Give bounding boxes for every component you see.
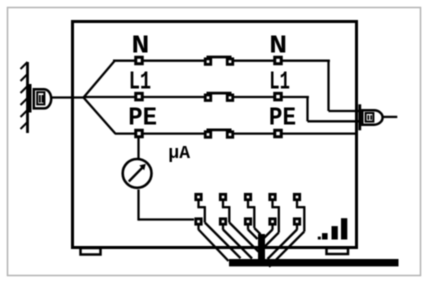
ammeter M1 — [123, 159, 152, 188]
plug P1 (mains plug, left) — [29, 84, 52, 113]
foot left — [81, 248, 101, 255]
wire L1 row left — [84, 96, 208, 98]
probe column 1 — [196, 194, 241, 261]
wire N row right — [231, 60, 330, 62]
wire plug to node — [51, 96, 85, 98]
probe column 2 — [220, 194, 258, 258]
merge stub — [258, 234, 265, 264]
terminal N left — [136, 57, 143, 64]
svg-text:L1: L1 — [269, 68, 290, 97]
device box — [73, 22, 357, 248]
wire meter down — [137, 190, 139, 221]
wire PE row left — [115, 132, 208, 134]
jumper link N — [205, 57, 233, 64]
wire N down at right — [327, 61, 329, 111]
jumper link PE — [205, 130, 233, 137]
terminal L1 left — [136, 93, 143, 100]
wire L1 to socket — [308, 120, 360, 122]
wire diagonal to PE — [84, 98, 116, 134]
probe column 5 — [268, 194, 305, 266]
foot right — [327, 248, 349, 254]
wire PE to meter — [137, 137, 139, 158]
wall hatch — [21, 62, 28, 129]
socket plug right — [358, 104, 397, 130]
wire PE row right — [231, 132, 358, 134]
probe bundle — [196, 194, 304, 266]
svg-text:PE: PE — [269, 104, 296, 133]
svg-text:N: N — [269, 32, 287, 61]
conductive plate bar — [229, 259, 399, 266]
svg-text:PE: PE — [128, 104, 157, 133]
svg-text:µA: µA — [168, 144, 190, 164]
terminal N right — [275, 57, 282, 64]
wire N row left — [113, 60, 208, 62]
wire meter to probes — [139, 218, 195, 220]
terminal PE left — [136, 130, 143, 137]
probe column 4 — [263, 194, 279, 247]
svg-text:L1: L1 — [129, 68, 151, 97]
jumper link L1 — [205, 93, 233, 100]
probe column 3 — [245, 194, 260, 239]
wire L1 down at right — [306, 97, 308, 121]
wire diagonal to N — [84, 61, 115, 98]
terminal PE right — [275, 130, 282, 137]
wire N to socket — [329, 110, 360, 112]
signal strength icon — [318, 218, 348, 239]
meter needle — [129, 167, 143, 182]
svg-text:N: N — [131, 32, 149, 61]
wire L1 row right — [231, 96, 309, 98]
terminal L1 right — [275, 93, 282, 100]
pin wire right — [383, 116, 398, 118]
wall (mains supply) — [26, 62, 29, 133]
